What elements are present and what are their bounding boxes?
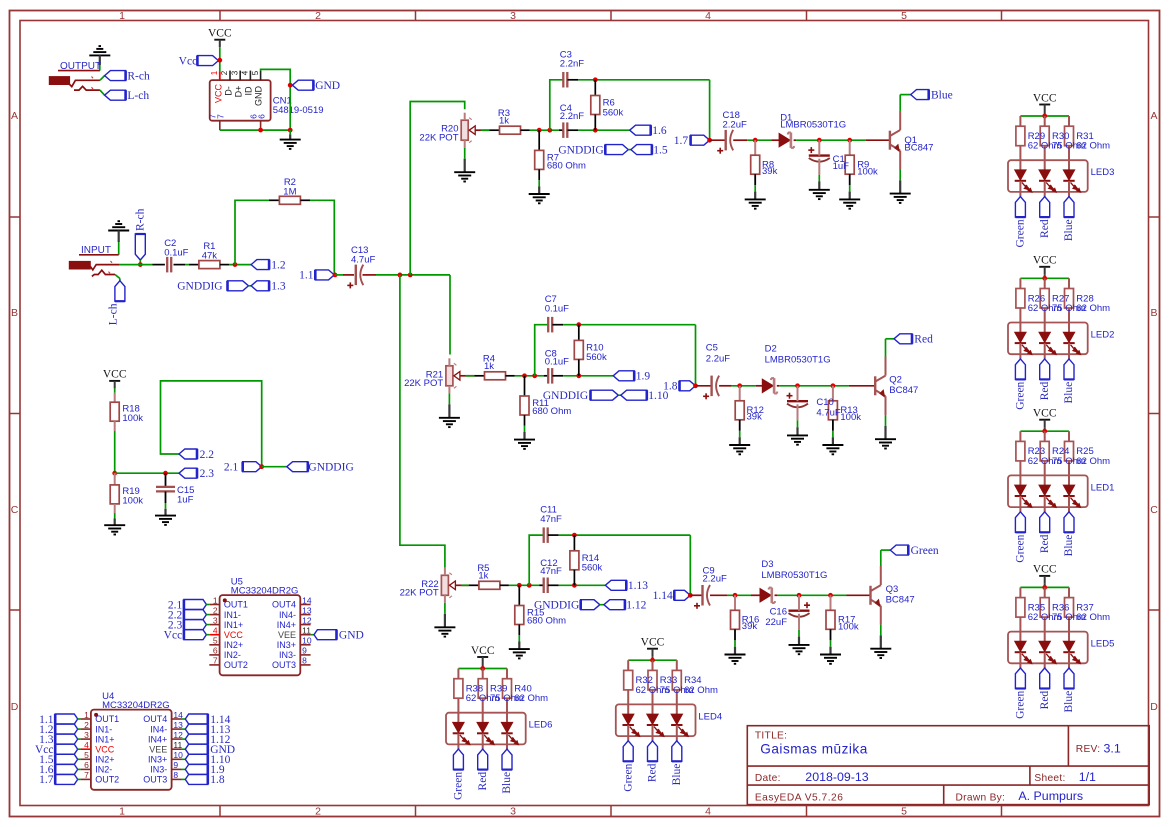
- port 1.2 at U4 pin 2: [39, 724, 80, 736]
- power VCC for LED3: [1033, 92, 1057, 112]
- LED element 1 of LED4: [623, 714, 640, 741]
- wire VCC rail LED3: [1020, 112, 1069, 116]
- svg-text:5: 5: [901, 806, 907, 818]
- pin 12 of U4: [148, 730, 183, 744]
- port Green (LED4): [622, 741, 634, 792]
- svg-text:D3: D3: [761, 559, 773, 570]
- svg-text:100k: 100k: [122, 413, 143, 424]
- port 1.7: [674, 135, 710, 147]
- svg-text:IN4+: IN4+: [148, 734, 167, 744]
- wire R2 right branch: [300, 200, 334, 275]
- pin 1 of U5: [209, 595, 248, 609]
- svg-text:1.13: 1.13: [628, 580, 648, 592]
- svg-text:62 Ohm: 62 Ohm: [1076, 303, 1110, 314]
- ground below CN1: [280, 130, 301, 149]
- resistor R11 680 Ohm (vertical): [520, 376, 571, 417]
- svg-text:VCC: VCC: [95, 744, 115, 754]
- capacitor C1 (filter polarized): [808, 140, 830, 162]
- wire VCC to R18: [114, 388, 116, 402]
- port 1.8: [663, 381, 695, 393]
- svg-text:2: 2: [220, 70, 229, 75]
- svg-text:TITLE:: TITLE:: [755, 731, 787, 742]
- capacitor C7 (feedback): [545, 294, 569, 332]
- pin 13 of U4: [150, 720, 183, 734]
- port 1.13 at U4 pin 13: [182, 724, 231, 736]
- pin 10 of U5: [277, 636, 312, 650]
- svg-text:14: 14: [302, 595, 312, 605]
- junction CN1 pin6: [258, 128, 263, 133]
- junction 1.14 node: [688, 593, 693, 598]
- pin 1 of U4: [81, 710, 120, 724]
- svg-text:VCC: VCC: [641, 637, 665, 649]
- value label R25: [1076, 446, 1110, 467]
- svg-text:1: 1: [213, 595, 218, 605]
- svg-text:7: 7: [216, 114, 226, 119]
- pin 4 of U5: [209, 626, 243, 640]
- svg-text:4: 4: [213, 626, 218, 636]
- junction C-row / R14: [572, 533, 577, 538]
- junction 1.1 node: [333, 273, 338, 278]
- resistor R3 1k: [498, 108, 521, 134]
- svg-text:2.2uF: 2.2uF: [703, 574, 727, 585]
- LED element 2 of LED4: [647, 714, 664, 741]
- wire VCC rail LED6: [458, 665, 507, 669]
- svg-text:Blue: Blue: [1063, 219, 1075, 241]
- svg-text:4: 4: [705, 806, 711, 818]
- svg-text:Green: Green: [622, 763, 634, 791]
- value label R39: [490, 684, 524, 705]
- wire R5 to junctions: [500, 584, 544, 586]
- svg-text:IN3+: IN3+: [148, 755, 167, 765]
- title block text Drawn By: [956, 789, 1084, 804]
- pin 10 of U4: [148, 750, 183, 764]
- resistor R28 62 Ohm (vertical): [1065, 278, 1074, 332]
- port Green (LED2): [1015, 359, 1027, 410]
- svg-text:0.1uF: 0.1uF: [164, 248, 188, 259]
- wire R3 to junctions: [521, 129, 564, 131]
- value label C16: [765, 606, 787, 628]
- junction R8 top: [753, 138, 758, 143]
- svg-text:VCC: VCC: [1033, 408, 1057, 420]
- svg-text:L-ch: L-ch: [127, 90, 149, 102]
- svg-text:GNDDIG: GNDDIG: [177, 281, 222, 293]
- svg-text:Green: Green: [1015, 381, 1027, 409]
- port Green (LED5): [1015, 668, 1027, 719]
- pin 11 of U4: [149, 740, 182, 754]
- pin 12 of U5: [277, 615, 312, 629]
- wire pot wiper to R3: [481, 129, 500, 131]
- junction VCC LED3: [1042, 114, 1047, 119]
- resistor R12 39k (vertical): [735, 386, 764, 423]
- svg-text:C10: C10: [816, 397, 833, 408]
- pin 3 of U5: [209, 615, 243, 629]
- resistor R37 62 Ohm (vertical): [1065, 587, 1074, 641]
- svg-text:Blue: Blue: [1063, 535, 1075, 557]
- svg-text:D+: D+: [234, 86, 244, 98]
- value label R24: [1052, 446, 1086, 467]
- svg-text:Vcc: Vcc: [179, 55, 198, 67]
- svg-text:OUT3: OUT3: [272, 660, 296, 670]
- wire C-row left elbow: [550, 80, 563, 130]
- svg-text:1k: 1k: [478, 570, 488, 581]
- svg-text:62 Ohm: 62 Ohm: [1076, 612, 1110, 623]
- svg-text:OUT3: OUT3: [143, 775, 167, 785]
- junction C1 top: [817, 138, 822, 143]
- port Vcc flag at CN1: [179, 55, 219, 67]
- ground below R13: [822, 420, 843, 455]
- svg-text:IN3+: IN3+: [277, 640, 296, 650]
- capacitor C11 (feedback): [540, 505, 562, 543]
- pin 11 of U5: [278, 626, 311, 640]
- resistor R1 47k: [199, 241, 220, 268]
- svg-text:D-: D-: [224, 86, 234, 96]
- svg-text:LMBR0530T1G: LMBR0530T1G: [780, 119, 846, 130]
- svg-text:1.7: 1.7: [674, 135, 689, 147]
- resistor R15 680 Ohm (vertical): [515, 585, 566, 626]
- resistor R40 62 Ohm (vertical): [503, 669, 512, 723]
- title block text Sheet: [1034, 770, 1096, 784]
- value label R27: [1052, 293, 1086, 314]
- wire pot wiper to R5: [461, 584, 479, 586]
- junction 2.1 node: [259, 464, 264, 469]
- port 1.8 at U4 pin 8: [182, 774, 225, 786]
- svg-text:REV:: REV:: [1076, 744, 1101, 755]
- title block text REV: [1076, 742, 1121, 756]
- pin 8 of U5: [272, 656, 311, 670]
- svg-text:560k: 560k: [586, 352, 607, 363]
- svg-text:B: B: [11, 307, 18, 319]
- resistor R26 62 Ohm (vertical): [1016, 278, 1025, 332]
- svg-text:2.3: 2.3: [200, 468, 215, 480]
- svg-text:5: 5: [251, 70, 260, 75]
- label OUTPUT: [58, 61, 101, 72]
- svg-text:GNDDIG: GNDDIG: [534, 600, 579, 612]
- svg-text:11: 11: [302, 626, 311, 636]
- resistor R18 100k: [110, 402, 143, 424]
- port GND at U4 pin 11: [182, 744, 235, 756]
- svg-text:R-ch: R-ch: [127, 71, 150, 83]
- power VCC for LED4: [641, 637, 665, 657]
- transistor Q1 BC847: [890, 130, 934, 154]
- svg-text:1: 1: [119, 806, 125, 818]
- pin 4 of U4: [81, 740, 115, 754]
- pin 6 of U4: [81, 760, 113, 775]
- svg-text:IN2-: IN2-: [224, 650, 241, 660]
- svg-text:IN1+: IN1+: [95, 734, 114, 744]
- svg-text:GNDDIG: GNDDIG: [558, 144, 603, 156]
- label LED3: [1091, 167, 1115, 178]
- svg-text:47nF: 47nF: [540, 514, 562, 525]
- wire R2 left branch: [235, 200, 279, 264]
- LED element 1 of LED3: [1015, 170, 1032, 197]
- label LED4: [698, 711, 722, 722]
- svg-text:6: 6: [256, 114, 266, 119]
- power VCC for LED5: [1033, 564, 1057, 584]
- wire pot wiper to R4: [465, 375, 484, 377]
- LED element 3 of LED6: [501, 722, 518, 749]
- port 2.1 at U5 pin 1: [168, 599, 209, 611]
- pin 14 of U5: [272, 595, 312, 609]
- resistor R5 1k: [477, 563, 500, 589]
- svg-text:2: 2: [84, 720, 89, 730]
- wire emitter to ground: [890, 151, 911, 203]
- port R-ch (input, pointing down): [135, 208, 147, 260]
- capacitor C15 1uF: [156, 473, 194, 505]
- resistor R24 75 Ohm (vertical): [1040, 431, 1049, 485]
- svg-text:3.1: 3.1: [1104, 742, 1121, 756]
- svg-text:GNDDIG: GNDDIG: [308, 462, 353, 474]
- LED element 1 of LED2: [1015, 332, 1032, 359]
- wire C-row rail down to detector row: [695, 325, 697, 386]
- svg-text:2.2nF: 2.2nF: [560, 59, 584, 70]
- capacitor C5 (coupling polarized): [703, 343, 730, 400]
- svg-text:100k: 100k: [840, 412, 861, 423]
- port 1.6: [630, 125, 667, 137]
- wire 2.1 to GNDDIG: [262, 466, 287, 468]
- svg-text:IN4-: IN4-: [279, 610, 296, 620]
- ground below R11: [514, 415, 535, 449]
- LED element 1 of LED6: [453, 722, 470, 749]
- svg-text:1/1: 1/1: [1079, 770, 1096, 784]
- svg-text:1.14: 1.14: [653, 590, 673, 602]
- svg-text:5: 5: [213, 636, 218, 646]
- svg-text:OUT1: OUT1: [95, 714, 119, 724]
- ground below R15: [509, 625, 530, 659]
- pin 7 of U4: [81, 770, 120, 784]
- svg-text:680 Ohm: 680 Ohm: [532, 406, 571, 417]
- wire OUTPUT tip to R-ch: [100, 76, 105, 81]
- wire detector row: [696, 385, 876, 387]
- svg-text:7: 7: [213, 656, 218, 666]
- wire collector to Red flag: [886, 339, 895, 376]
- wire C13 to split node: [363, 274, 451, 276]
- svg-text:560k: 560k: [582, 563, 603, 574]
- port Blue (LED1): [1063, 512, 1075, 557]
- capacitor C13 4.7uF polarized: [347, 245, 375, 288]
- svg-text:VCC: VCC: [1033, 92, 1057, 104]
- svg-text:VCC: VCC: [224, 630, 244, 640]
- value label R33: [660, 675, 694, 696]
- svg-text:0.1uF: 0.1uF: [545, 356, 569, 367]
- junction R7 top: [537, 128, 542, 133]
- junction R15 top: [517, 583, 522, 588]
- LED module LED5: [1008, 632, 1088, 664]
- svg-text:Blue: Blue: [1063, 382, 1075, 404]
- port 1.14: [653, 590, 691, 602]
- port GND at CN1: [292, 80, 340, 92]
- svg-text:VCC: VCC: [1033, 255, 1057, 267]
- ground below R19: [104, 504, 125, 535]
- wire C-row left elbow: [535, 325, 548, 376]
- svg-text:12: 12: [302, 615, 312, 625]
- pin 5 of U5: [209, 636, 243, 650]
- port Blue (LED4): [671, 741, 683, 786]
- svg-text:2.2: 2.2: [200, 449, 215, 461]
- wire 2.2 bracket: [161, 381, 262, 467]
- svg-text:4: 4: [241, 70, 250, 75]
- label CN1 54819-0519: [273, 96, 324, 117]
- port GND at U5 pin 11: [311, 630, 364, 642]
- capacitor C3 (feedback): [560, 49, 584, 87]
- svg-text:2: 2: [315, 10, 321, 22]
- port Blue: [911, 89, 953, 101]
- port Blue (LED5): [1063, 668, 1075, 713]
- label INPUT: [79, 245, 119, 256]
- value label R28: [1076, 293, 1110, 314]
- svg-text:VCC: VCC: [208, 28, 232, 40]
- port Red (LED4): [647, 741, 659, 782]
- svg-text:IN4+: IN4+: [277, 620, 296, 630]
- ground below R17: [820, 629, 841, 664]
- junction C-branch: [532, 373, 537, 378]
- svg-text:0.1uF: 0.1uF: [545, 304, 569, 315]
- title block text TITLE: [755, 731, 787, 742]
- resistor R38 62 Ohm (vertical): [454, 669, 463, 723]
- svg-text:Red: Red: [1039, 381, 1051, 400]
- wire R18 to node: [114, 421, 116, 473]
- junction C15 top: [163, 471, 168, 476]
- svg-text:1k: 1k: [484, 361, 494, 372]
- svg-text:Green: Green: [1015, 691, 1027, 719]
- ruler column numbers: [119, 10, 907, 818]
- junction C12 / R14: [572, 583, 577, 588]
- wire CN1 bottom: [220, 129, 290, 131]
- svg-text:ID: ID: [244, 86, 254, 96]
- wire C2 to R1: [174, 264, 199, 266]
- svg-text:Red: Red: [1039, 534, 1051, 553]
- svg-text:560k: 560k: [603, 107, 624, 118]
- power VCC above R18: [103, 369, 127, 389]
- wire R4 to junctions: [506, 375, 549, 377]
- svg-text:Gaismas mūzika: Gaismas mūzika: [760, 742, 867, 757]
- svg-text:1uF: 1uF: [177, 494, 194, 505]
- resistor R39 75 Ohm (vertical): [478, 669, 487, 723]
- svg-text:2.2uF: 2.2uF: [723, 119, 747, 130]
- resistor R30 75 Ohm (vertical): [1040, 116, 1049, 170]
- svg-text:1: 1: [84, 710, 89, 720]
- wire rail down to channel 3 pot R22: [400, 275, 445, 568]
- LED element 3 of LED4: [671, 714, 688, 741]
- port 1.2: [251, 259, 286, 271]
- port Red (LED2): [1039, 359, 1051, 400]
- pin 14 of U4: [143, 710, 183, 724]
- wire rail up to channel 1 pot R20: [410, 102, 465, 275]
- port Green (LED1): [1015, 512, 1027, 563]
- svg-text:Red: Red: [647, 763, 659, 782]
- LED element 3 of LED2: [1063, 332, 1080, 359]
- svg-text:VEE: VEE: [149, 744, 167, 754]
- port GNDDIG pair 1.5: [558, 144, 668, 156]
- pin 2 of U5: [209, 605, 241, 619]
- svg-text:Green: Green: [1015, 219, 1027, 247]
- svg-text:22K POT: 22K POT: [400, 588, 439, 599]
- title block border: [747, 726, 1149, 805]
- svg-text:VCC: VCC: [1033, 564, 1057, 576]
- value label R9: [857, 159, 878, 177]
- transistor Q2 BC847: [875, 375, 918, 397]
- resistor R23 62 Ohm (vertical): [1016, 431, 1025, 485]
- port 2.1: [224, 462, 262, 474]
- pin 7 of U5: [209, 656, 248, 670]
- svg-text:Green: Green: [453, 772, 465, 800]
- wire 1.1 to C13: [335, 274, 354, 276]
- svg-text:VCC: VCC: [214, 84, 224, 104]
- power VCC above CN1: [208, 28, 232, 48]
- svg-text:13: 13: [302, 605, 312, 615]
- svg-text:IN2+: IN2+: [224, 640, 243, 650]
- LED module LED6: [446, 713, 526, 745]
- svg-text:1.1: 1.1: [299, 270, 314, 282]
- svg-text:1.9: 1.9: [636, 371, 651, 383]
- svg-text:BC847: BC847: [886, 594, 915, 605]
- op-amp U4 MC33204DR2G: [91, 691, 172, 790]
- pin 8 of U4: [143, 770, 182, 784]
- connector CN1 54819-0519: [208, 70, 271, 130]
- wire input row to C2: [119, 264, 165, 266]
- resistor R4 1k: [483, 353, 506, 379]
- junction VCC LED5: [1042, 585, 1047, 590]
- value label R23: [1028, 446, 1062, 467]
- svg-text:IN3-: IN3-: [279, 650, 296, 660]
- svg-text:Red: Red: [1039, 219, 1051, 238]
- capacitor C2 0.1uF: [164, 238, 188, 272]
- LED element 1 of LED1: [1015, 485, 1032, 512]
- audio jack J-OUT: [49, 77, 100, 91]
- svg-text:Blue: Blue: [1063, 691, 1075, 713]
- port 1.12 at U4 pin 12: [182, 734, 231, 746]
- svg-text:22uF: 22uF: [765, 617, 787, 628]
- svg-text:LED6: LED6: [529, 720, 553, 731]
- wire C4 right: [568, 129, 630, 131]
- pin 13 of U5: [279, 605, 312, 619]
- junction C16 top: [797, 593, 802, 598]
- svg-text:IN2-: IN2-: [95, 765, 112, 775]
- ground above INPUT jack: [108, 221, 129, 255]
- svg-text:1uF: 1uF: [833, 161, 850, 172]
- resistor R33 75 Ohm (vertical): [648, 660, 657, 714]
- LED element 3 of LED5: [1063, 641, 1080, 668]
- wire node to C15 and 2.3: [115, 472, 179, 474]
- svg-text:4.7uF: 4.7uF: [816, 408, 840, 419]
- LED element 1 of LED5: [1015, 641, 1032, 668]
- svg-text:C: C: [11, 504, 19, 516]
- label LED6: [529, 720, 553, 731]
- resistor R10 560k (vertical): [574, 325, 607, 376]
- svg-text:VCC: VCC: [471, 645, 495, 657]
- LED element 3 of LED3: [1063, 170, 1080, 197]
- resistor R35 62 Ohm (vertical): [1016, 587, 1025, 641]
- title block text Gaismas muzika: [760, 742, 867, 757]
- wire collector to Blue flag: [900, 95, 911, 130]
- junction R12 top: [737, 383, 742, 388]
- LED element 2 of LED3: [1039, 170, 1056, 197]
- resistor R25 62 Ohm (vertical): [1065, 431, 1074, 485]
- wire VCC rail LED4: [628, 656, 677, 660]
- junction GND flag: [288, 83, 293, 88]
- svg-text:62 Ohm: 62 Ohm: [514, 693, 548, 704]
- svg-text:10: 10: [302, 636, 312, 646]
- svg-text:1: 1: [210, 70, 219, 75]
- svg-text:1.2: 1.2: [271, 259, 286, 271]
- value label R17: [838, 614, 859, 632]
- svg-text:Red: Red: [914, 334, 933, 346]
- svg-text:Green: Green: [1015, 534, 1027, 562]
- svg-text:Blue: Blue: [931, 89, 953, 101]
- svg-text:D2: D2: [765, 344, 777, 355]
- junction VCC LED1: [1042, 429, 1047, 434]
- wire C12 right: [548, 584, 605, 586]
- wire C-row rail down to detector row: [689, 535, 691, 595]
